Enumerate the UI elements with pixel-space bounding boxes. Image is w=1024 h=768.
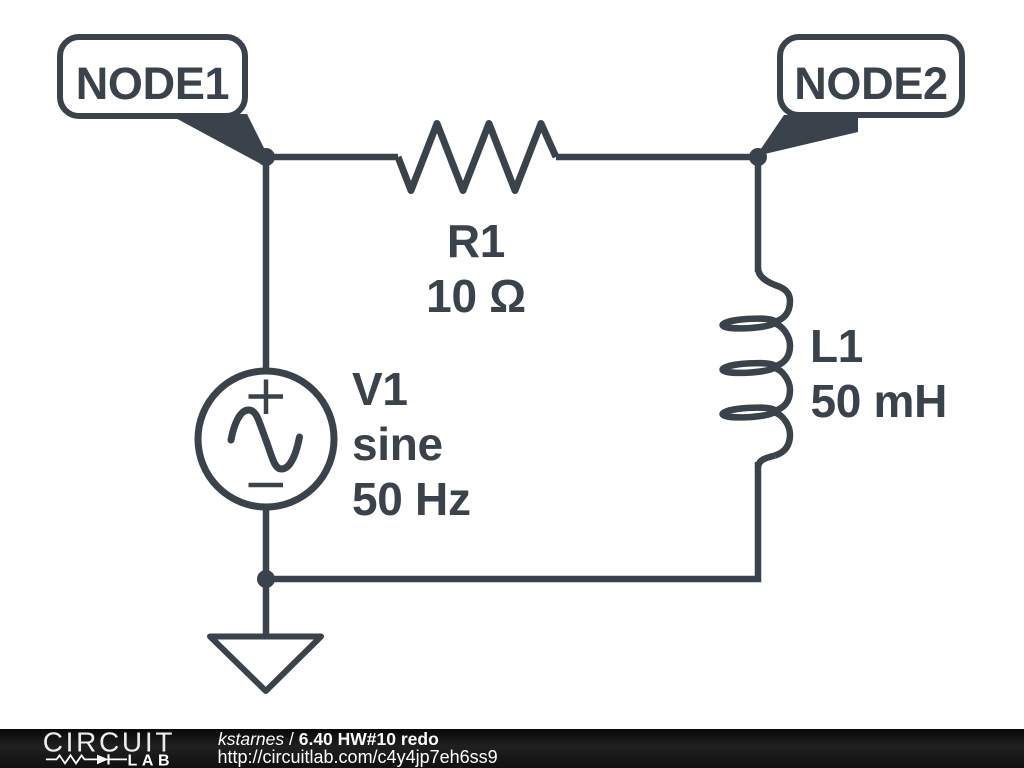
node label NODE2 (756, 37, 962, 156)
svg-text:R1: R1 (447, 215, 505, 267)
svg-text:sine: sine (352, 418, 443, 470)
wire ground junction to ground symbol (263, 579, 270, 637)
footer logo resistor-diode symbol + LAB (46, 754, 127, 764)
node NODE2 junction dot (749, 148, 767, 166)
svg-text:http://circuitlab.com/c4y4jp7e: http://circuitlab.com/c4y4jp7eh6ss9 (218, 747, 498, 767)
svg-text:10 Ω: 10 Ω (426, 270, 526, 322)
ground (210, 637, 321, 692)
svg-text:NODE2: NODE2 (794, 58, 948, 109)
ground junction dot (257, 570, 275, 588)
wire NODE1 down to V1 top (263, 157, 270, 372)
svg-text:LAB: LAB (128, 752, 175, 768)
wire bottom horizontal and right riser (266, 462, 758, 579)
voltage source V1 circle (198, 371, 334, 507)
resistor R1 (398, 124, 556, 191)
node label NODE1 (60, 37, 268, 163)
svg-text:V1: V1 (352, 363, 408, 415)
svg-text:L1: L1 (810, 320, 863, 372)
svg-text:50 Hz: 50 Hz (352, 473, 471, 525)
inductor L1 coil (722, 268, 790, 468)
V1 sine wave (231, 410, 300, 469)
svg-text:50 mH: 50 mH (811, 375, 948, 427)
wire NODE1 to resistor left (266, 154, 398, 161)
svg-text:NODE1: NODE1 (76, 58, 230, 109)
node NODE1 junction dot (257, 148, 275, 166)
wire NODE2 down to inductor top (755, 157, 762, 272)
wire resistor right to NODE2 (556, 154, 758, 161)
V1 plus sign (249, 380, 284, 415)
svg-text:kstarnes / 6.40 HW#10 redo: kstarnes / 6.40 HW#10 redo (218, 729, 439, 749)
V1 minus sign (249, 483, 284, 488)
wire V1 bottom to ground junction (263, 506, 270, 579)
footer bar (0, 729, 1024, 768)
